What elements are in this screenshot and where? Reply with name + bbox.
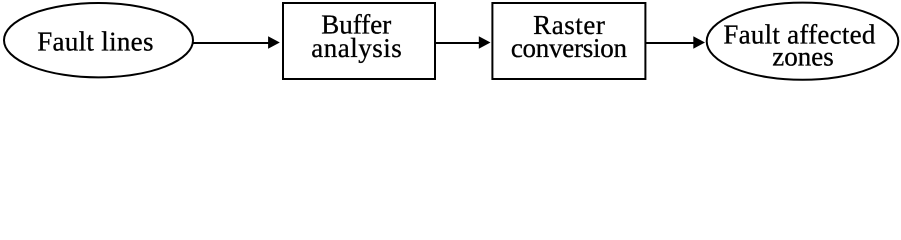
ellipse: Fault affected zones (707, 3, 899, 80)
box: Raster conversion (492, 3, 645, 79)
wire: box1 to box2 (436, 42, 481, 44)
box: Buffer analysis (283, 3, 435, 79)
wire: ellipse1 to box1 (192, 42, 270, 44)
svg-text:conversion: conversion (511, 33, 628, 63)
arrowhead 2 (479, 36, 491, 49)
svg-text:analysis: analysis (311, 33, 402, 63)
ellipse: Fault lines (4, 3, 193, 77)
svg-text:Fault lines: Fault lines (37, 27, 154, 57)
wire: box2 to ellipse2 (646, 42, 695, 44)
arrowhead 1 (268, 36, 280, 49)
arrowhead 3 (693, 36, 705, 49)
svg-text:zones: zones (772, 42, 833, 72)
